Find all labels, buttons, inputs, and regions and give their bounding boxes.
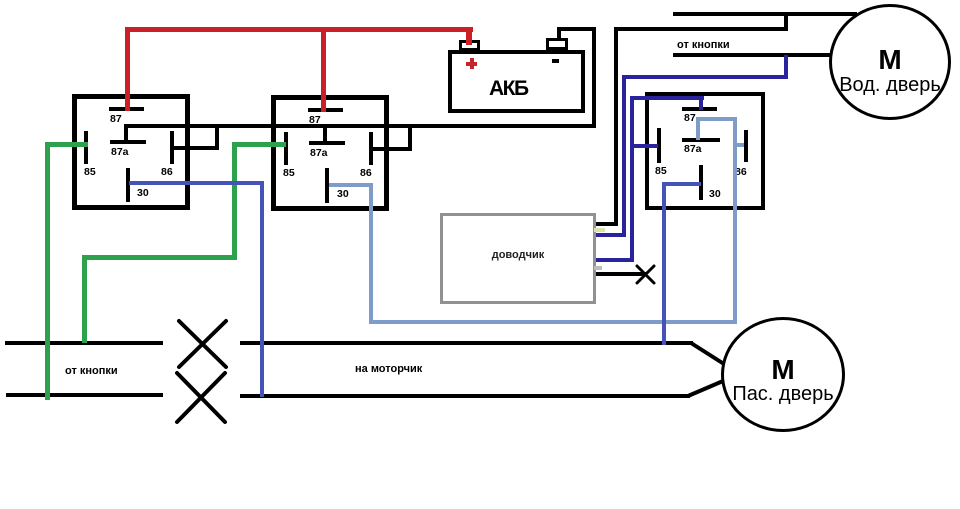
от кнопки bottom label — [65, 366, 118, 377]
relay K3 pin 87 — [682, 107, 717, 111]
battery minus terminal — [546, 38, 568, 50]
closer yellow pin stub — [594, 228, 605, 232]
relay K3 pin 30 label — [709, 189, 721, 200]
closer input 4 black wire with X — [596, 272, 646, 276]
relay K3 pin 87a label — [684, 144, 702, 155]
green wire vertical x47 — [45, 142, 50, 400]
X cut mark closer input 4 — [637, 266, 654, 283]
relay K2 pin 87 label — [309, 115, 321, 126]
от кнопки top wire 3 to motor — [673, 53, 832, 57]
relay K2 pin 86 jog vertical — [408, 126, 412, 151]
relay K2 box — [271, 95, 389, 211]
red wire drop to battery plus — [466, 27, 472, 45]
navy wire vertical to closer input 2 — [622, 75, 626, 237]
relay K3 pin 85 — [657, 128, 661, 163]
relay K3 pin 85 label — [655, 166, 667, 177]
royal wire vertical x664 — [662, 182, 666, 345]
navy wire K3 branch horizontal to pin 87 — [630, 96, 704, 100]
motor M passenger door letter — [721, 356, 845, 384]
navy wire vertical x632 — [630, 96, 634, 262]
steel wire long vertical x735 — [733, 117, 737, 324]
от кнопки top wire 1 — [673, 12, 857, 16]
navy wire drop onto K3 pin 87 — [699, 96, 703, 110]
steel wire long horizontal y319 — [369, 320, 737, 324]
motor passenger door label — [721, 384, 845, 404]
motor M passenger door circle — [721, 317, 845, 432]
relay K2 pin 87 — [308, 108, 343, 112]
battery plus label — [466, 62, 477, 66]
navy wire into closer input 3 — [596, 258, 634, 262]
ground bus wire top horizontal — [557, 27, 596, 31]
red wire drop to K2 pin 87 — [321, 27, 326, 112]
X cut mark 1 — [179, 321, 226, 367]
relay K2 pin 85 — [284, 132, 288, 165]
battery AKB label — [489, 78, 528, 99]
relay K1 pin 86 wire to bus — [172, 146, 219, 150]
relay K3 pin 30 — [699, 165, 703, 200]
relay K1 pin 30 label — [137, 188, 149, 199]
relay K1 pin 87 label — [110, 114, 122, 125]
relay K1 pin 85 label — [84, 167, 96, 178]
green wire 2 to K2 pin 85 — [232, 142, 286, 147]
royal wire from K1 pin 30 — [129, 181, 264, 185]
на моторчик line B right — [240, 394, 690, 398]
ground bus wire from battery minus (vertical into terminal) — [557, 27, 561, 40]
relay K1 pin 87a riser wire — [124, 125, 128, 142]
black wire down to closer input 1 — [614, 27, 618, 226]
relay K2 pin 30 — [325, 168, 329, 203]
от кнопки bottom line B left — [6, 393, 163, 397]
navy wire into closer input 2 — [596, 233, 626, 237]
от кнопки top wire 2 — [616, 27, 788, 31]
main black bus wire (87a/86 common) — [124, 124, 596, 128]
relay K3 pin 86 — [744, 130, 748, 162]
steel wire jog to K3 pin 86 — [735, 143, 744, 147]
navy wire from motor line down (vertical at x786) — [784, 55, 788, 79]
closer gray pin stub — [594, 266, 602, 270]
от кнопки wire 1-2 link vertical — [784, 12, 788, 31]
steel wire from K2 pin 30 — [329, 183, 373, 187]
red wire drop to K1 pin 87 — [125, 27, 130, 111]
motor M driver door letter — [829, 46, 951, 74]
green wire 2 vertical up x236 — [232, 142, 237, 260]
relay K3 box — [645, 92, 765, 210]
relay K1 pin 87a — [110, 140, 146, 144]
steel wire horizontal y117 — [696, 117, 737, 121]
relay K2 pin 86 label — [360, 168, 372, 179]
battery minus label — [552, 59, 559, 63]
relay K1 pin 86 jog vertical — [215, 125, 219, 150]
green wire 2 vertical low x84 — [82, 255, 87, 343]
на моторчик label — [355, 364, 422, 375]
relay K3 pin 87a — [682, 138, 720, 142]
relay K2 pin 30 label — [337, 189, 349, 200]
green wire 2 horizontal y255 — [82, 255, 237, 260]
relay K2 pin 87a label — [310, 148, 328, 159]
relay K1 pin 87 — [109, 107, 144, 111]
closer input 1 black wire — [596, 222, 618, 226]
royal wire from K3 pin 30 — [662, 182, 701, 186]
closer unit box (доводчик) — [440, 213, 596, 304]
closer unit label — [440, 250, 596, 261]
slant line A to motor 2 — [691, 343, 724, 364]
battery plus terminal — [459, 40, 480, 51]
battery AKB box — [448, 50, 585, 113]
motor M driver door circle — [829, 4, 951, 120]
relay K3 pin 86 label — [735, 167, 747, 178]
relay K1 pin 86 — [170, 131, 174, 164]
relay K1 pin 87a label — [111, 147, 129, 158]
relay K3 pin 87 label — [684, 113, 696, 124]
navy wire branch to K3 pin 85 — [630, 144, 658, 148]
slant line B to motor 2 — [688, 381, 723, 396]
от кнопки bottom line A left — [5, 341, 163, 345]
relay K2 pin 87a — [309, 141, 345, 145]
relay K1 box — [72, 94, 190, 210]
relay K1 pin 85 — [84, 131, 88, 164]
relay K1 pin 30 — [126, 168, 130, 202]
battery plus label vertical stroke — [470, 58, 474, 69]
от кнопки top label — [677, 40, 730, 51]
relay K2 pin 87a riser wire — [323, 126, 327, 142]
royal wire vertical x262 — [260, 181, 264, 397]
navy wire horizontal y77 — [622, 75, 788, 79]
на моторчик line A right — [240, 341, 693, 345]
steel wire from K3 pin 87a up — [696, 119, 700, 140]
green wire to K1 pin 85 — [45, 142, 88, 147]
red +12V wire horizontal — [125, 27, 473, 32]
ground bus wire right vertical — [592, 27, 596, 128]
X cut mark 2 — [177, 373, 225, 422]
relay K2 pin 85 label — [283, 168, 295, 179]
relay K2 pin 86 wire to bus — [371, 147, 412, 151]
motor driver door label — [829, 75, 951, 95]
steel wire vertical from K2 pin 30 — [369, 183, 373, 324]
relay K2 pin 86 — [369, 132, 373, 165]
relay K1 pin 86 label — [161, 167, 173, 178]
